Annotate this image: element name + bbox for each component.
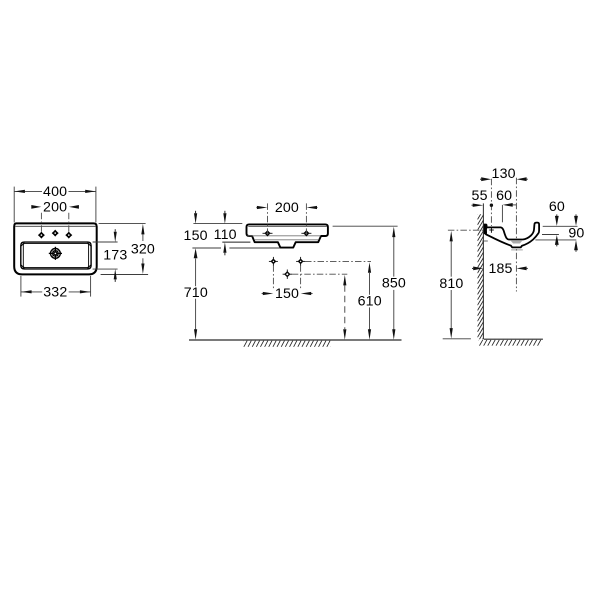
svg-text:850: 850 — [382, 276, 406, 292]
svg-text:320: 320 — [131, 242, 155, 258]
svg-text:610: 610 — [358, 294, 382, 310]
svg-text:130: 130 — [492, 166, 516, 182]
svg-text:200: 200 — [43, 200, 67, 216]
svg-text:710: 710 — [184, 285, 208, 301]
svg-text:110: 110 — [214, 227, 237, 243]
svg-text:810: 810 — [439, 276, 463, 292]
svg-text:185: 185 — [488, 261, 512, 277]
svg-text:90: 90 — [568, 225, 584, 241]
svg-text:55: 55 — [472, 188, 488, 204]
svg-text:150: 150 — [184, 228, 208, 244]
svg-text:400: 400 — [43, 184, 67, 200]
svg-text:332: 332 — [43, 285, 67, 301]
svg-text:60: 60 — [496, 188, 512, 204]
svg-text:60: 60 — [549, 199, 565, 215]
svg-text:150: 150 — [275, 286, 299, 302]
svg-text:173: 173 — [103, 247, 127, 263]
svg-text:200: 200 — [275, 200, 299, 216]
